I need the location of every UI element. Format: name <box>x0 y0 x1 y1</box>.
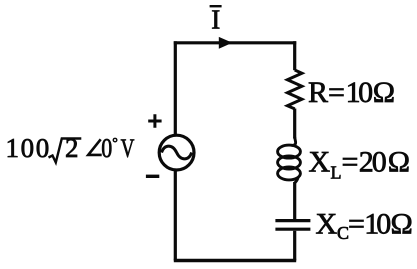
label R=10ohm <box>308 76 395 109</box>
minus sign <box>146 175 159 178</box>
svg-text:10: 10 <box>346 76 373 109</box>
label XL=20ohm <box>309 146 410 183</box>
svg-text:I: I <box>211 5 220 35</box>
wire top <box>174 41 296 44</box>
wire right upper <box>293 41 296 70</box>
svg-text:10: 10 <box>364 208 390 241</box>
capacitor XC plates <box>275 221 310 230</box>
svg-text:Ω: Ω <box>373 76 395 109</box>
wire right lower <box>293 231 296 261</box>
current arrowhead <box>219 37 233 49</box>
label I-bar <box>210 5 222 35</box>
svg-text:2: 2 <box>65 133 79 163</box>
inductor XL coil <box>278 137 301 183</box>
svg-text:R=: R= <box>308 76 345 109</box>
svg-text:V: V <box>121 134 135 163</box>
radical sign <box>49 139 82 163</box>
wire between R and L <box>293 109 296 139</box>
label XC=10ohm <box>316 208 413 244</box>
svg-text:=: = <box>348 208 365 241</box>
svg-text:Ω: Ω <box>388 146 410 179</box>
svg-text:X: X <box>309 146 331 179</box>
wire left lower <box>174 170 177 260</box>
wire bottom <box>174 259 296 262</box>
source value label 100 sqrt2 angle 0 deg V <box>6 133 135 163</box>
svg-text:X: X <box>316 208 338 241</box>
resistor R zigzag <box>287 70 302 109</box>
source V1 circle <box>159 135 194 170</box>
svg-text:L: L <box>331 162 342 182</box>
svg-text:0: 0 <box>101 133 112 163</box>
angle symbol <box>88 139 102 155</box>
svg-text:=: = <box>342 146 359 179</box>
wire left upper <box>174 41 177 134</box>
svg-text:100: 100 <box>6 133 51 163</box>
source sine wave <box>162 146 192 159</box>
svg-text:°: ° <box>112 136 118 151</box>
svg-text:20: 20 <box>359 146 386 179</box>
svg-text:Ω: Ω <box>391 208 413 241</box>
wire between L and C <box>293 182 296 219</box>
plus sign <box>148 114 161 127</box>
